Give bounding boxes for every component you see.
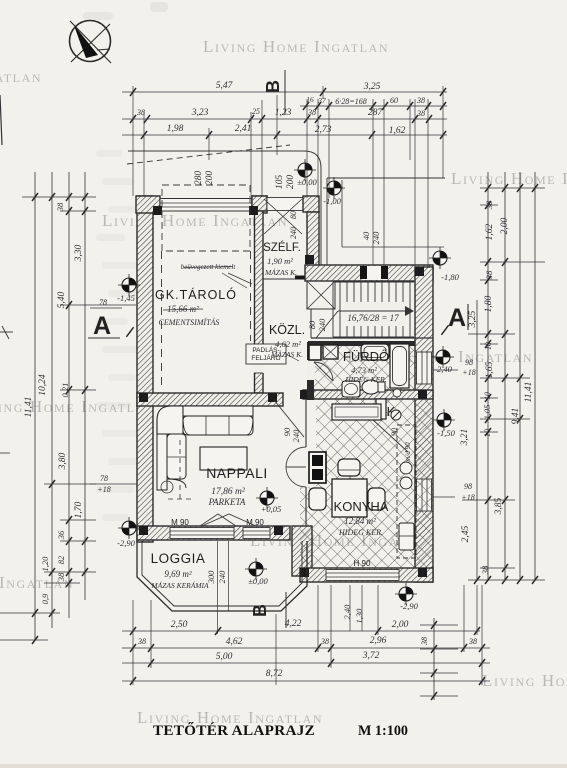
svg-text:-1,50: -1,50 bbox=[437, 428, 455, 438]
svg-text:NAPPALI: NAPPALI bbox=[206, 465, 268, 481]
FURDO toilet bbox=[362, 380, 380, 394]
stair walk line diagonal bbox=[316, 311, 338, 338]
svg-text:12,84 m²: 12,84 m² bbox=[344, 516, 376, 526]
svg-text:H 90: H 90 bbox=[354, 559, 371, 568]
top extension lines bbox=[132, 86, 134, 196]
SZELF diagonal cross bbox=[264, 199, 302, 234]
svg-text:10,24: 10,24 bbox=[38, 374, 48, 396]
FURDO left wall thin bbox=[307, 342, 314, 400]
KONYHA door leaf diagonal bbox=[372, 419, 408, 452]
svg-text:11,41: 11,41 bbox=[524, 382, 534, 403]
svg-text:280: 280 bbox=[194, 171, 204, 186]
door jamb KOZL-NAPPALI bbox=[282, 399, 284, 406]
svg-text:38: 38 bbox=[484, 200, 494, 210]
svg-text:MÁZAS K.: MÁZAS K. bbox=[264, 267, 297, 277]
roof eaves outline with rounded corner bbox=[128, 151, 321, 266]
svg-text:3,80: 3,80 bbox=[58, 452, 68, 470]
KONYHA bottom wall bbox=[300, 568, 433, 582]
door jamb left bbox=[360, 266, 367, 279]
under-stair void X box bbox=[307, 281, 335, 309]
pier GK/SZELF top bbox=[252, 196, 267, 211]
svg-text:5,00: 5,00 bbox=[216, 652, 233, 662]
svg-text:38: 38 bbox=[416, 109, 425, 118]
svg-text:82: 82 bbox=[56, 555, 66, 564]
svg-text:240: 240 bbox=[291, 429, 301, 443]
chair right bbox=[368, 488, 385, 510]
porch slab left edge bbox=[341, 180, 343, 247]
svg-text:16: 16 bbox=[306, 95, 314, 104]
svg-text:38: 38 bbox=[420, 637, 429, 646]
window M90 right in NAPPALI bottom wall bbox=[243, 528, 270, 539]
svg-text:36: 36 bbox=[56, 530, 66, 540]
top dimension row 3 bbox=[122, 118, 447, 120]
right exterior wall bbox=[415, 267, 433, 582]
FURDO top wall inner line bbox=[311, 343, 415, 345]
svg-text:±0,00: ±0,00 bbox=[297, 177, 317, 187]
left dimension vertical lines bbox=[34, 172, 36, 640]
svg-text:10: 10 bbox=[484, 342, 493, 350]
svg-text:4,73 m²: 4,73 m² bbox=[351, 365, 377, 375]
svg-text:0,21: 0,21 bbox=[60, 383, 70, 398]
svg-text:38: 38 bbox=[137, 637, 146, 646]
stair top stringer bbox=[333, 281, 414, 283]
svg-text:LOGGIA: LOGGIA bbox=[151, 551, 206, 566]
window opening triangles bbox=[200, 514, 236, 526]
bottom right mini column bbox=[433, 618, 435, 700]
window in right wall (KONYHA) bbox=[417, 479, 432, 511]
FURDO boiler bbox=[309, 345, 321, 360]
svg-text:-1,45: -1,45 bbox=[117, 293, 135, 303]
FURDO top wall thin bbox=[308, 341, 415, 346]
svg-text:90: 90 bbox=[390, 428, 399, 436]
svg-text:4,62 m²: 4,62 m² bbox=[275, 339, 301, 349]
left edge marks bbox=[0, 331, 13, 333]
svg-text:1,62: 1,62 bbox=[389, 126, 406, 136]
svg-text:-1,00: -1,00 bbox=[323, 196, 341, 206]
benchmark -2,40 right bbox=[432, 346, 454, 368]
door jamb right bbox=[381, 266, 388, 279]
benchmark 0,00 loggia bbox=[245, 558, 267, 580]
top-left corner pier bbox=[136, 196, 160, 213]
svg-text:3,25: 3,25 bbox=[468, 310, 478, 328]
NAPPALI-KONYHA door arc bbox=[286, 447, 306, 467]
KONYHA floor cross-hatch bbox=[300, 399, 433, 568]
svg-text:60: 60 bbox=[390, 96, 398, 105]
door leaf KOZL-NAPPALI bbox=[274, 400, 304, 437]
svg-text:m/d 90: m/d 90 bbox=[404, 442, 412, 462]
svg-text:78: 78 bbox=[100, 474, 108, 483]
svg-text:Living Home Ingatlan: Living Home Ingatlan bbox=[0, 67, 42, 86]
porch slab edge bbox=[342, 246, 444, 248]
kitchen counter along top wall bbox=[332, 404, 381, 420]
svg-text:1,90 m²: 1,90 m² bbox=[267, 256, 293, 266]
svg-text:80: 80 bbox=[307, 320, 317, 329]
svg-text:Living Home Ingatlan: Living Home Ingatlan bbox=[482, 671, 567, 690]
svg-text:240: 240 bbox=[317, 318, 327, 332]
svg-text:3,30: 3,30 bbox=[74, 244, 84, 262]
kitchen counter dashed bbox=[397, 425, 416, 558]
dashed roof slope line bbox=[127, 145, 290, 164]
bottom dimension row D bbox=[122, 680, 490, 682]
svg-text:-1,80: -1,80 bbox=[441, 272, 459, 282]
FURDO counter unit bbox=[361, 344, 389, 360]
svg-text:1,98: 1,98 bbox=[167, 124, 184, 134]
benchmark -1,00 bbox=[323, 177, 345, 199]
svg-text:0,9: 0,9 bbox=[40, 593, 50, 604]
benchmark +0,05 nappali bbox=[256, 487, 278, 509]
threshold bar SZELF bbox=[295, 276, 307, 280]
svg-text:3,23: 3,23 bbox=[191, 108, 209, 118]
corner pillar blocks bbox=[153, 206, 162, 215]
porch / stair top wall bbox=[305, 265, 433, 281]
NAPPALI/KONYHA wall line lower bbox=[305, 487, 307, 526]
svg-text:240: 240 bbox=[371, 231, 381, 245]
sofa vertical part bbox=[157, 434, 167, 490]
NAPPALI/KONYHA wall line upper bbox=[305, 399, 307, 447]
svg-text:8,72: 8,72 bbox=[266, 669, 283, 679]
svg-text:2,50: 2,50 bbox=[171, 620, 188, 630]
svg-text:38: 38 bbox=[55, 202, 65, 212]
svg-text:B: B bbox=[250, 604, 270, 617]
svg-text:Living Home Ingatlan: Living Home Ingatlan bbox=[203, 37, 389, 56]
svg-text:Living Home Ingatlan: Living Home Ingatlan bbox=[451, 169, 567, 188]
svg-text:3,21: 3,21 bbox=[460, 429, 470, 447]
svg-text:1,30: 1,30 bbox=[354, 608, 364, 624]
FURDO bottom wall bbox=[303, 390, 433, 399]
svg-text:16,76/28 = 17: 16,76/28 = 17 bbox=[347, 313, 399, 323]
svg-text:+18: +18 bbox=[462, 368, 475, 377]
svg-text:9,69 m²: 9,69 m² bbox=[164, 569, 191, 579]
benchmark -1,45 left bbox=[118, 274, 140, 296]
svg-text:17,86 m²: 17,86 m² bbox=[211, 487, 245, 497]
chimney K in KONYHA corner bbox=[376, 399, 386, 419]
svg-text:FÜRDŐ: FÜRDŐ bbox=[343, 349, 389, 364]
svg-text:2,00: 2,00 bbox=[392, 620, 409, 630]
SZELF top door/window opening with frame bbox=[267, 198, 303, 211]
svg-text:37: 37 bbox=[317, 96, 326, 105]
svg-text:1,62: 1,62 bbox=[485, 223, 495, 240]
svg-text:25: 25 bbox=[252, 107, 260, 116]
wall GK.TAROLO / NAPPALI bbox=[137, 393, 283, 406]
section marker B top bbox=[284, 70, 286, 114]
bottom dimension row B bbox=[122, 647, 490, 649]
svg-text:±0,00: ±0,00 bbox=[248, 576, 268, 586]
staircase treads bbox=[332, 282, 334, 337]
door opening GK.TAROLO-KOZL bbox=[254, 345, 265, 373]
svg-text:TETŐTÉR ALAPRAJZ: TETŐTÉR ALAPRAJZ bbox=[153, 722, 315, 739]
sofa corner piece bbox=[157, 406, 183, 434]
svg-text:240: 240 bbox=[217, 570, 227, 584]
svg-text:MÁZAS KERÁMIA: MÁZAS KERÁMIA bbox=[150, 580, 209, 590]
svg-text:38: 38 bbox=[56, 572, 66, 582]
sofa cushions horizontal bbox=[183, 416, 253, 435]
window in right wall (FURDO) bbox=[417, 352, 432, 384]
benchmark -1,50 right bbox=[433, 409, 455, 431]
plant circle bbox=[161, 481, 173, 493]
svg-text:3,25: 3,25 bbox=[363, 82, 381, 92]
svg-text:38: 38 bbox=[484, 270, 494, 280]
svg-text:2,40: 2,40 bbox=[342, 604, 352, 620]
dashed layout lines NAPPALI bbox=[179, 440, 181, 500]
svg-text:MÁZAS K.: MÁZAS K. bbox=[270, 349, 303, 359]
attic access label box bbox=[246, 344, 286, 364]
benchmark -2,90 konyha bbox=[395, 583, 417, 605]
svg-text:-2,40: -2,40 bbox=[434, 364, 452, 374]
svg-text:-2,90: -2,90 bbox=[400, 601, 418, 611]
svg-text:PARKETA: PARKETA bbox=[208, 497, 246, 507]
svg-text:3,72: 3,72 bbox=[362, 651, 380, 661]
canopy edge vertical bbox=[326, 178, 328, 266]
dashed roof window rectangle bbox=[162, 185, 250, 251]
svg-text:HIDEG KER.: HIDEG KER. bbox=[344, 375, 386, 384]
wall line above FURDO bbox=[311, 337, 433, 339]
sofa back horizontal bbox=[183, 406, 253, 416]
B section marker bottom bbox=[285, 592, 287, 628]
svg-text:78: 78 bbox=[99, 298, 107, 307]
svg-text:5,47: 5,47 bbox=[216, 81, 234, 91]
landing edge bbox=[310, 309, 312, 338]
bottom extension lines bbox=[132, 600, 134, 685]
svg-text:M 1:100: M 1:100 bbox=[358, 723, 408, 739]
FURDO bathtub vertical bbox=[390, 344, 409, 388]
dashed knee-wall line GK.TAROLO left bbox=[161, 251, 163, 390]
svg-text:KÖZL.: KÖZL. bbox=[269, 323, 305, 337]
svg-text:38: 38 bbox=[468, 637, 477, 646]
chair left bbox=[309, 488, 326, 510]
svg-text:-2,90: -2,90 bbox=[117, 538, 135, 548]
svg-text:38: 38 bbox=[416, 96, 425, 105]
svg-text:+18: +18 bbox=[461, 493, 474, 502]
kitchen stove circles bbox=[400, 462, 412, 474]
svg-text:+18: +18 bbox=[97, 485, 110, 494]
svg-text:38: 38 bbox=[320, 637, 329, 646]
bottom dimension row C bbox=[122, 662, 490, 664]
right dimension vertical lines bbox=[476, 300, 478, 580]
SZELF right wall (thin) bbox=[307, 212, 319, 268]
svg-text:KONYHA: KONYHA bbox=[334, 499, 389, 514]
benchmark -1,80 right bbox=[429, 247, 451, 269]
left tick rows bbox=[22, 196, 96, 198]
svg-text:B: B bbox=[263, 80, 283, 93]
loggia parapet outline bbox=[137, 541, 307, 611]
SZELF/KOZL boundary line bbox=[263, 278, 307, 280]
window strip in top wall bbox=[160, 199, 252, 212]
svg-text:80: 80 bbox=[289, 211, 298, 219]
svg-text:4,62: 4,62 bbox=[226, 637, 243, 647]
svg-text:4,22: 4,22 bbox=[285, 619, 302, 629]
svg-text:200: 200 bbox=[205, 171, 215, 186]
dashed knee-wall line GK.TAROLO right bbox=[250, 251, 252, 341]
svg-text:2,96: 2,96 bbox=[370, 636, 387, 646]
canopy edge right bbox=[327, 177, 445, 179]
NAPPALI bottom wall bbox=[137, 526, 290, 540]
right tick rows bbox=[480, 187, 545, 189]
top dimension row 2 bbox=[300, 105, 447, 107]
svg-text:+0,05: +0,05 bbox=[261, 504, 282, 514]
svg-text:3,85: 3,85 bbox=[494, 497, 504, 515]
kitchen table bbox=[332, 479, 367, 517]
FURDO door swing bbox=[314, 362, 333, 381]
north arrow compass bbox=[70, 21, 112, 64]
wall LOGGIA / KONYHA pier bbox=[292, 526, 312, 576]
svg-text:10: 10 bbox=[483, 392, 492, 400]
svg-text:2,00: 2,00 bbox=[500, 217, 510, 234]
svg-text:1,65: 1,65 bbox=[485, 361, 495, 378]
benchmark +-0,00 porch bbox=[294, 159, 316, 181]
svg-text:GK.TÁROLÓ: GK.TÁROLÓ bbox=[155, 287, 237, 302]
wall GK.TAROLO / SZELF+KOZL (thin) bbox=[255, 211, 264, 393]
svg-text:A: A bbox=[93, 312, 111, 340]
top-right pier bbox=[252, 196, 267, 213]
FURDO washing machine bbox=[323, 345, 338, 359]
svg-text:105: 105 bbox=[275, 175, 285, 190]
ghost bleed-through marks bbox=[96, 150, 122, 157]
chair top bbox=[338, 459, 360, 476]
top dimension row 1 bbox=[122, 91, 447, 93]
svg-text:98: 98 bbox=[464, 482, 472, 491]
stair walk line bbox=[338, 310, 410, 312]
svg-text:M 90: M 90 bbox=[246, 518, 264, 527]
svg-text:A: A bbox=[448, 304, 466, 332]
FURDO washbasin bbox=[342, 381, 360, 397]
svg-text:CEMENTSIMÍTÁS: CEMENTSIMÍTÁS bbox=[159, 317, 220, 327]
svg-text:38: 38 bbox=[307, 108, 316, 117]
svg-text:200: 200 bbox=[286, 175, 296, 190]
tiled stove between NAPPALI and KONYHA bbox=[309, 452, 326, 483]
svg-text:2,45: 2,45 bbox=[461, 525, 471, 542]
svg-text:5,40: 5,40 bbox=[57, 291, 67, 308]
svg-text:SZÉLF.: SZÉLF. bbox=[263, 241, 301, 254]
svg-text:9,41: 9,41 bbox=[511, 408, 521, 425]
svg-text:M 90: M 90 bbox=[171, 518, 189, 527]
coffee table bbox=[200, 447, 247, 470]
FURDO door opening bbox=[306, 360, 315, 380]
svg-text:1,80: 1,80 bbox=[484, 295, 494, 312]
svg-text:1,70: 1,70 bbox=[74, 501, 84, 518]
top dimension row 4 bbox=[122, 134, 447, 136]
svg-text:2,41: 2,41 bbox=[235, 124, 252, 134]
svg-text:287: 287 bbox=[368, 108, 384, 118]
svg-text:HIDEG KER.: HIDEG KER. bbox=[338, 528, 383, 537]
loggia depth extension lines bbox=[217, 541, 219, 634]
kitchen sink bbox=[399, 523, 414, 550]
svg-text:6·28=168: 6·28=168 bbox=[335, 97, 366, 106]
svg-text:38: 38 bbox=[480, 565, 490, 575]
diameter symbol kitchen bbox=[391, 410, 401, 420]
svg-text:1,20: 1,20 bbox=[40, 556, 50, 572]
left exterior wall bbox=[137, 196, 153, 542]
svg-text:98: 98 bbox=[465, 358, 473, 367]
bottom dimension row A bbox=[122, 630, 480, 632]
entrance door opening bbox=[364, 266, 384, 280]
FURDO floor cross-hatch bbox=[311, 344, 415, 392]
svg-text:40: 40 bbox=[361, 231, 371, 240]
svg-text:10: 10 bbox=[483, 429, 492, 437]
svg-text:11,41: 11,41 bbox=[24, 397, 34, 418]
benchmark -2,90 left bbox=[118, 517, 140, 539]
bottom scan edge bbox=[0, 764, 567, 768]
window in KONYHA bottom wall (H 90) bbox=[326, 570, 399, 581]
pier SZELF right top bbox=[303, 196, 319, 212]
window M90 left in NAPPALI bottom wall bbox=[170, 528, 234, 539]
svg-text:1,05: 1,05 bbox=[482, 405, 492, 420]
svg-text:240: 240 bbox=[289, 227, 298, 239]
stair bottom stringer bbox=[333, 336, 414, 338]
